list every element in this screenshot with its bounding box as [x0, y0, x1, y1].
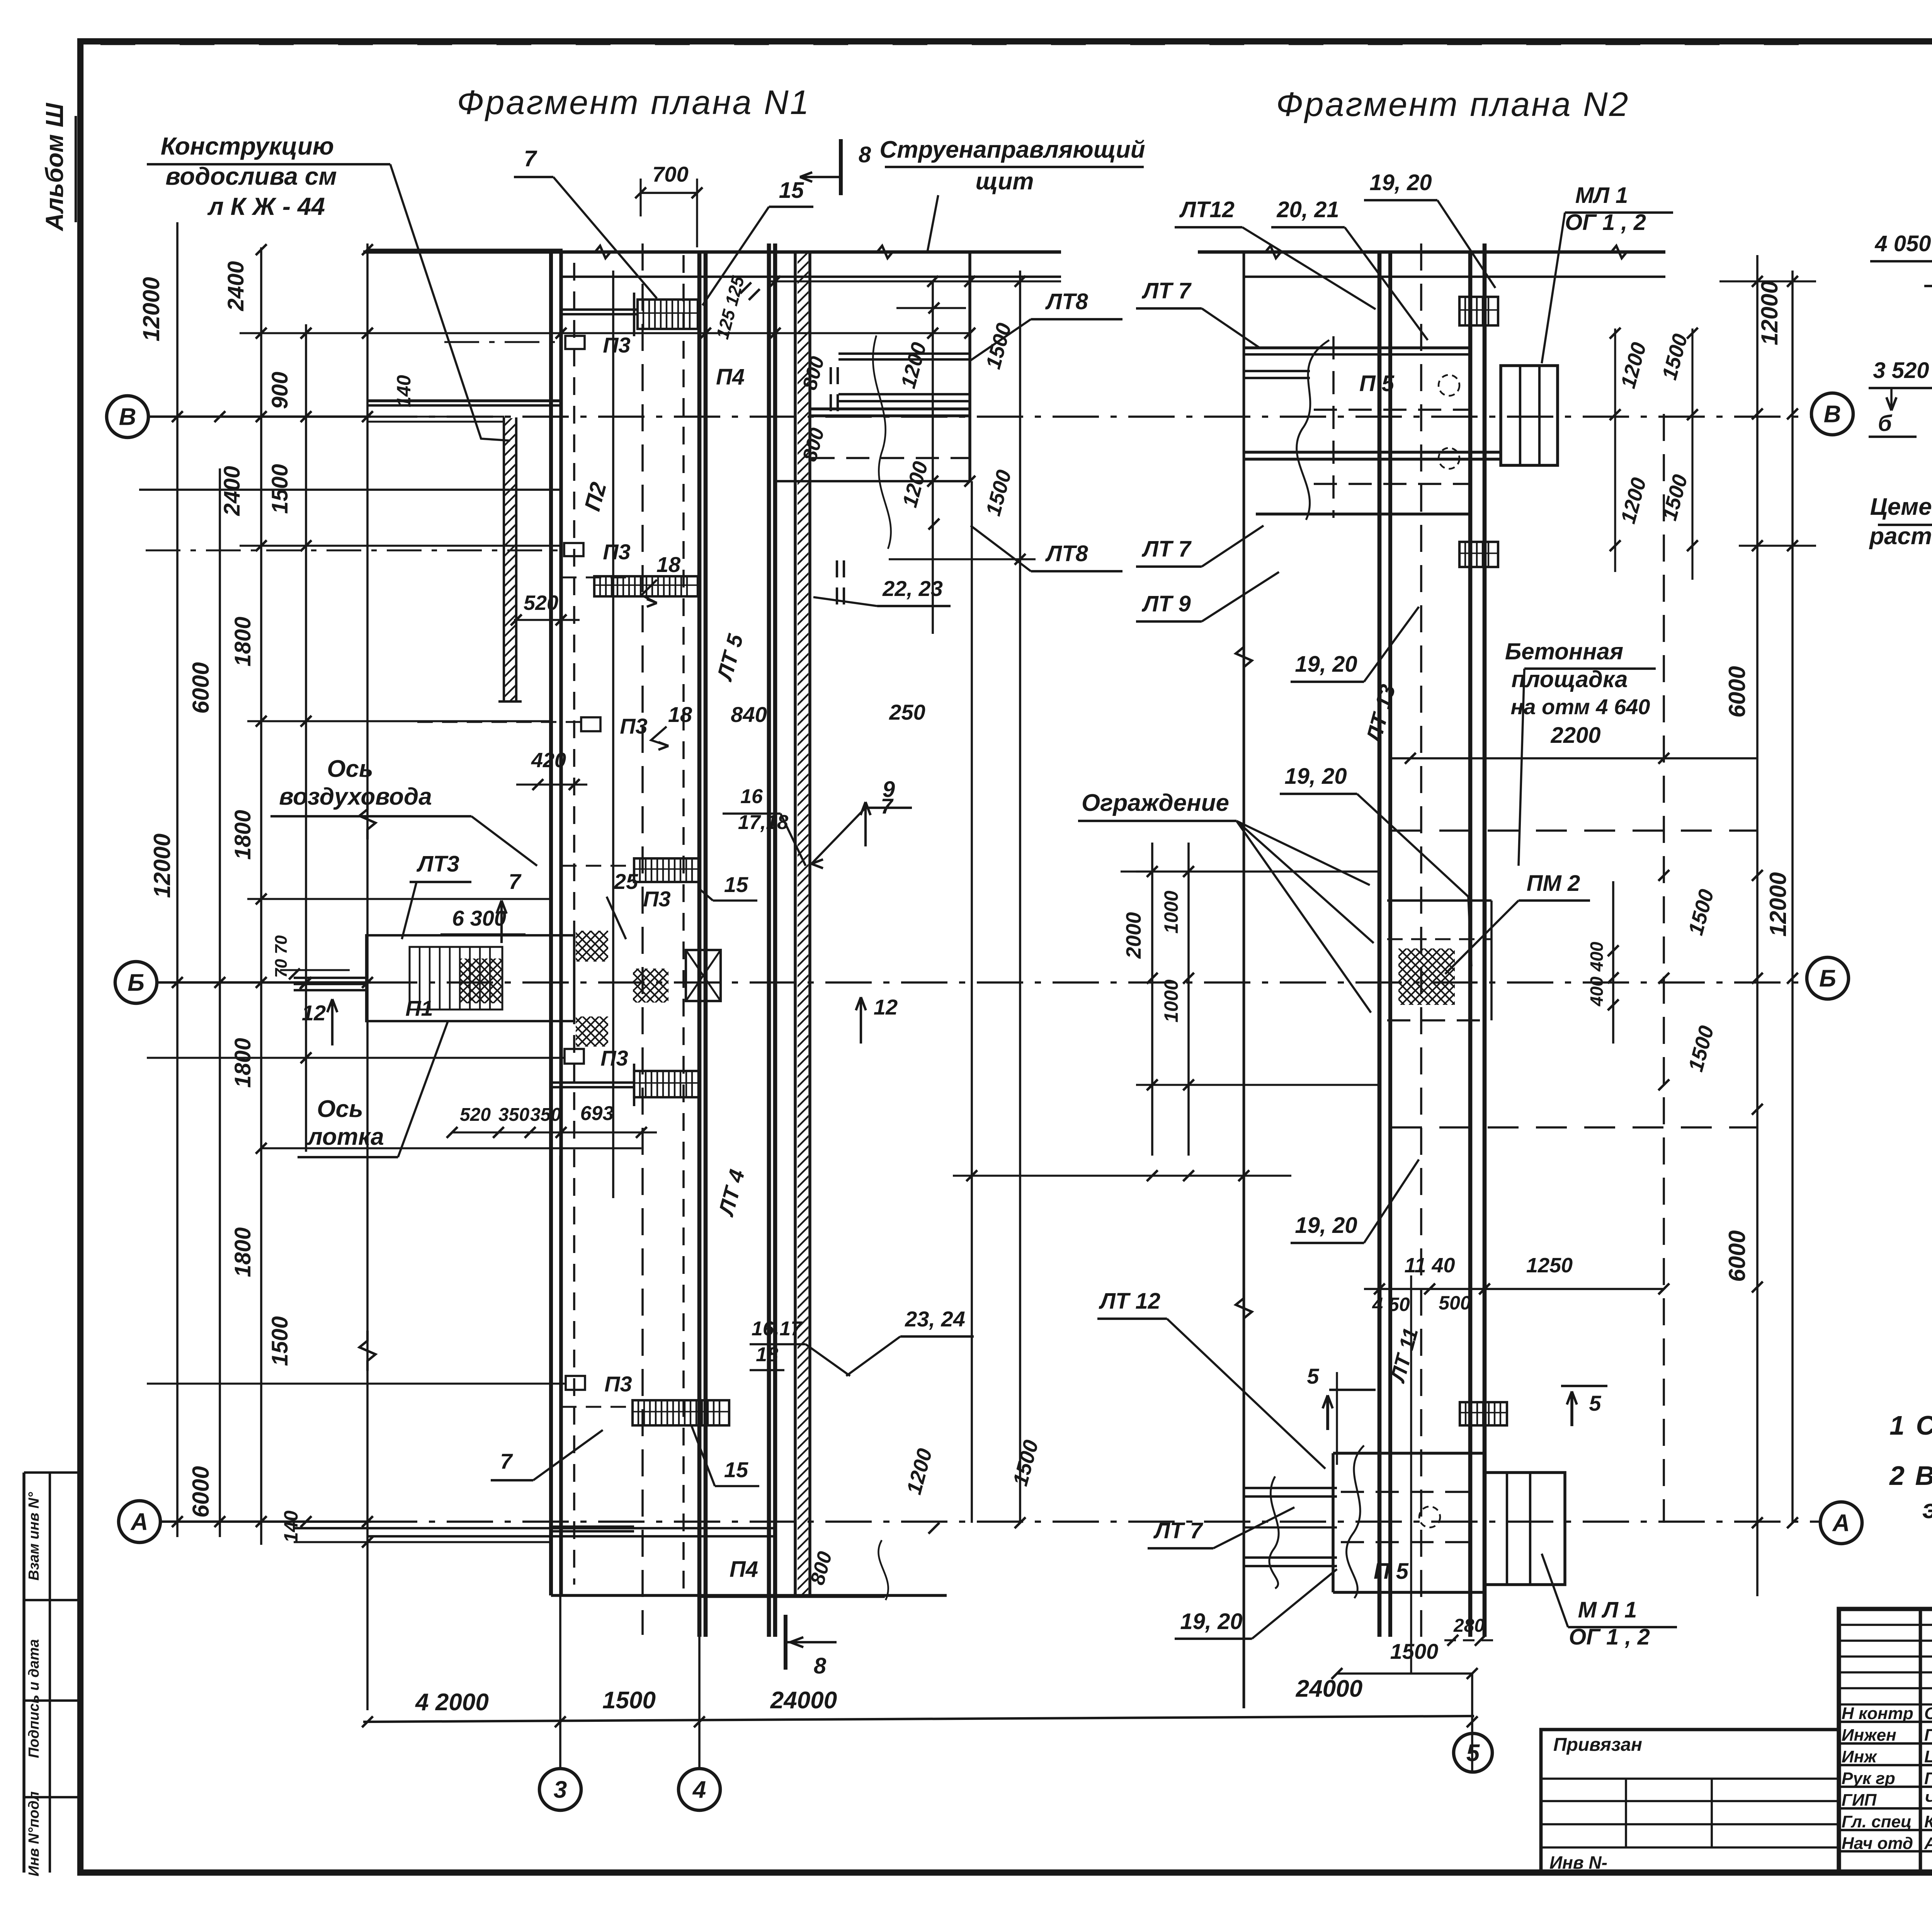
П3 leader dash-dot 4	[247, 1057, 565, 1059]
привязан rows	[1541, 1777, 1839, 1780]
svg-text:Привязан: Привязан	[1553, 1735, 1642, 1755]
svg-text:12: 12	[302, 1001, 326, 1025]
svg-text:лотка: лотка	[306, 1124, 384, 1150]
svg-text:1500: 1500	[267, 1316, 293, 1366]
Конструкцию водослива leader	[390, 164, 510, 441]
wavy break curve bottom	[1269, 1476, 1279, 1588]
title block name rows	[1839, 1721, 1932, 1723]
axis circle В (right)	[1811, 393, 1853, 435]
svg-text:2 Все сварные шбы h= 6мм: 2 Все сварные шбы h= 6мм Сварку произбод…	[1889, 1461, 1932, 1491]
svg-text:7: 7	[509, 869, 522, 894]
svg-text:24000: 24000	[770, 1687, 837, 1714]
svg-text:П4: П4	[730, 1557, 758, 1582]
svg-text:19, 20: 19, 20	[1284, 764, 1347, 789]
svg-text:19, 20: 19, 20	[1180, 1609, 1242, 1634]
svg-text:4 2000: 4 2000	[415, 1689, 489, 1716]
svg-text:1800: 1800	[230, 1038, 255, 1088]
ladder lower (П5 top block)	[1459, 542, 1498, 567]
plan1 axis dashed vertical	[641, 243, 644, 1635]
svg-text:Альбом Ш: Альбом Ш	[41, 102, 68, 232]
plan1 hatched wall band	[794, 252, 797, 1595]
axis line Б (plan 1)	[157, 981, 371, 984]
dim line y862 ticks	[301, 328, 311, 339]
axis circle А (left)	[119, 1501, 160, 1542]
svg-text:500: 500	[1439, 1292, 1471, 1314]
svg-text:1000: 1000	[1160, 979, 1182, 1022]
svg-text:Чирков: Чирков	[1924, 1791, 1932, 1810]
plan1 right dim vertical 1	[932, 281, 934, 634]
svg-text:1 Совместно с данным см л л: 1 Совместно с данным см л л К Ж -36 ,39 …	[1889, 1410, 1932, 1440]
svg-text:693: 693	[580, 1102, 614, 1125]
svg-text:раствор М -200: раствор М -200	[1869, 523, 1932, 550]
svg-text:4 050: 4 050	[1874, 231, 1931, 256]
axis line В (plan 1)	[148, 415, 371, 418]
svg-text:Фрагмент плана N1: Фрагмент плана N1	[457, 83, 811, 121]
svg-text:2000: 2000	[1122, 912, 1145, 959]
П3 square 5	[566, 1376, 585, 1390]
bottom double beam lines	[551, 1081, 634, 1084]
svg-text:6000: 6000	[188, 662, 214, 713]
dimension ticks on left chain	[172, 411, 183, 422]
vertical dim drop lines bottom block	[1336, 1372, 1338, 1465]
plan1 top boundary	[363, 250, 1061, 254]
svg-text:15: 15	[779, 178, 804, 203]
svg-text:Петропавловская: Петропавловская	[1924, 1726, 1932, 1745]
П3 leader dash-dot 2	[146, 550, 564, 552]
central block crosshatch patch	[460, 958, 502, 1003]
привязан columns	[1625, 1779, 1627, 1847]
plan1 left wall line a	[549, 252, 553, 1595]
svg-text:19, 20: 19, 20	[1369, 170, 1432, 195]
svg-text:350: 350	[498, 1105, 529, 1125]
plan1 right wall top segment	[968, 252, 971, 481]
bottom dimension line	[363, 1716, 1474, 1722]
plan1 right dim vertical 2	[971, 481, 973, 1523]
right dimension chain verticals	[1756, 255, 1759, 1596]
svg-text:П3: П3	[620, 714, 647, 738]
additional dashed horizontals in strip	[561, 577, 634, 579]
svg-text:18: 18	[656, 552, 681, 577]
svg-text:840: 840	[731, 702, 767, 727]
svg-text:700: 700	[652, 162, 688, 186]
svg-text:электродами Э-42 ГОСТ 9467 -: электродами Э-42 ГОСТ 9467 -75	[1922, 1494, 1932, 1524]
svg-text:на отм 4 640: на отм 4 640	[1511, 695, 1650, 719]
П1 corridor double lines to left	[294, 977, 366, 979]
svg-text:щит: щит	[976, 168, 1034, 195]
8 section mark bottom	[784, 1615, 787, 1670]
svg-text:Гарбуз: Гарбуз	[1924, 1769, 1932, 1788]
svg-text:250: 250	[889, 700, 925, 724]
top border scan smudge	[100, 41, 1839, 45]
plan1 right panel bottom line	[775, 480, 970, 482]
svg-text:2400: 2400	[219, 466, 245, 516]
П3 dashed leader 2b	[417, 721, 581, 723]
svg-text:1800: 1800	[230, 616, 255, 666]
svg-text:Семенова: Семенова	[1924, 1704, 1932, 1723]
svg-text:Подпись и дата: Подпись и дата	[26, 1639, 42, 1758]
svg-text:12000: 12000	[149, 834, 175, 898]
plan2 dashed right boundary	[1663, 414, 1665, 1523]
svg-text:4 50: 4 50	[1372, 1294, 1410, 1315]
svg-text:520: 520	[460, 1105, 491, 1125]
700 dimension top	[641, 192, 697, 194]
svg-text:П3: П3	[643, 887, 670, 911]
svg-text:520: 520	[524, 591, 558, 615]
plan2 beam pair left	[1378, 252, 1382, 1637]
svg-text:ЛТ 12: ЛТ 12	[1099, 1289, 1160, 1314]
plan1 second top line	[562, 276, 1061, 278]
plan1 far right dim vertical	[1019, 271, 1021, 1523]
plan2 bottom dim line (1140/1250)	[1364, 1288, 1664, 1290]
П5 dashed circles	[1439, 375, 1459, 396]
plan2 dashed axis	[1420, 243, 1422, 1637]
central block stairs	[410, 947, 502, 1010]
svg-text:6000: 6000	[1724, 666, 1750, 717]
МЛ1 attachment bottom	[1485, 1473, 1565, 1585]
140 dim bottom	[294, 1527, 775, 1529]
svg-text:Конструкцию: Конструкцию	[161, 132, 334, 160]
П3 square 1	[565, 336, 585, 349]
tick line below Б between plans	[953, 1175, 1291, 1176]
В axis double wall line (right of plan1)	[810, 407, 971, 410]
12 arrow left	[331, 999, 333, 1045]
dim verticals for 1200/1500 right of П5	[1691, 329, 1693, 580]
ladder 19,20 top	[1459, 297, 1498, 325]
axis 5 drop line	[1471, 1674, 1473, 1772]
svg-text:ЛТ12: ЛТ12	[1179, 197, 1235, 222]
svg-text:140: 140	[393, 375, 415, 407]
ladder 15 (top)	[638, 300, 698, 329]
wavy break curve through П5 block	[1297, 340, 1329, 520]
axis 3 drop line	[559, 1156, 561, 1768]
svg-text:12000: 12000	[1757, 281, 1782, 346]
svg-text:Бетонная: Бетонная	[1505, 638, 1623, 664]
svg-text:1250: 1250	[1526, 1254, 1573, 1277]
ladder (Б lower)	[634, 1071, 699, 1097]
double dash symbols in П4 area	[830, 367, 832, 384]
svg-text:Н контр: Н контр	[1842, 1704, 1913, 1723]
svg-text:22, 23: 22, 23	[882, 576, 943, 601]
right chain ticks	[1752, 409, 1763, 419]
left chain horizontal tick lines	[367, 249, 563, 250]
dim line above Б between plans	[1121, 870, 1379, 872]
break marks on plan top lines	[587, 246, 618, 258]
svg-text:ЛТ8: ЛТ8	[1045, 289, 1088, 314]
svg-text:2200: 2200	[1550, 723, 1600, 748]
svg-text:7: 7	[881, 794, 894, 818]
plan2 top boundary	[1198, 250, 1665, 254]
wavy break line through П4 area	[873, 335, 891, 549]
привязан table outline	[1541, 1730, 1839, 1873]
svg-text:15: 15	[724, 1457, 748, 1482]
svg-text:400: 400	[1587, 941, 1607, 972]
svg-text:4: 4	[692, 1777, 706, 1803]
svg-text:Цбеткова: Цбеткова	[1924, 1747, 1932, 1766]
svg-text:19, 20: 19, 20	[1295, 1213, 1357, 1238]
svg-text:б: б	[1878, 411, 1893, 436]
svg-text:5: 5	[1466, 1740, 1480, 1767]
plan1 bottom boundary	[551, 1594, 947, 1597]
бетонная площадка dashed outline right of plan2	[1391, 829, 1757, 832]
svg-text:Инжен: Инжен	[1842, 1726, 1896, 1745]
ladder (bottom)	[633, 1400, 729, 1425]
svg-text:ЛТ 7: ЛТ 7	[1141, 536, 1192, 562]
svg-text:7: 7	[500, 1449, 513, 1473]
svg-text:3 520: 3 520	[1873, 358, 1929, 383]
title block thin top rows (left part)	[1839, 1624, 1932, 1626]
plan2 left boundary long line	[1243, 252, 1245, 1708]
svg-text:Ось: Ось	[327, 756, 373, 782]
svg-text:1000: 1000	[1160, 890, 1182, 933]
plan1 top dim line	[768, 280, 1061, 282]
central machine block П1 outline	[366, 935, 574, 1021]
plan1 thin vertical	[612, 271, 614, 1198]
beam double lines in П4 right panel	[838, 352, 971, 355]
stair dimension 520 350 350	[452, 1131, 657, 1133]
svg-text:Инв N-: Инв N-	[1549, 1852, 1607, 1873]
ось line (left long thin vertical)	[366, 243, 369, 1710]
plan1 dashed vertical 2	[682, 255, 685, 1592]
svg-text:ЛТ 7: ЛТ 7	[1141, 278, 1192, 303]
svg-text:Инж: Инж	[1842, 1747, 1878, 1766]
svg-text:П3: П3	[603, 333, 630, 357]
svg-text:25: 25	[614, 869, 638, 894]
svg-text:П 5: П 5	[1374, 1559, 1409, 1584]
svg-text:А: А	[1832, 1510, 1850, 1537]
plan1 wall double line across left part	[367, 399, 561, 402]
svg-text:Ось: Ось	[317, 1096, 363, 1122]
1200/1500 dim ticks right panel	[929, 303, 939, 313]
svg-text:1800: 1800	[230, 810, 255, 860]
plan2 second top line	[1244, 276, 1665, 278]
ПМ2 crosshatch patch	[1398, 948, 1455, 1005]
ПМ2 box dashes	[1387, 899, 1492, 902]
svg-text:ЛТ 9: ЛТ 9	[1141, 591, 1191, 616]
svg-text:70 70: 70 70	[272, 935, 291, 978]
svg-text:П3: П3	[604, 1372, 632, 1396]
П3 leader dash-dot 1	[444, 341, 565, 343]
svg-text:л К Ж - 44: л К Ж - 44	[207, 192, 325, 220]
svg-text:16: 16	[740, 785, 763, 808]
svg-text:водослива см: водослива см	[165, 162, 337, 190]
svg-text:1800: 1800	[230, 1227, 255, 1277]
svg-text:12000: 12000	[138, 277, 164, 342]
svg-text:24000: 24000	[1296, 1675, 1362, 1702]
П4 bottom box	[700, 1595, 885, 1598]
plan2 beam pair right	[1468, 252, 1473, 1637]
svg-text:П3: П3	[600, 1046, 628, 1070]
svg-text:12000: 12000	[1765, 872, 1791, 937]
plan1 dashed line near left wall	[573, 263, 575, 1585]
svg-text:Нач отд: Нач отд	[1842, 1834, 1913, 1853]
svg-text:Рук гр: Рук гр	[1842, 1769, 1895, 1788]
П3 square 2	[564, 543, 583, 556]
svg-text:П3: П3	[603, 540, 630, 564]
plan2 mid dim verticals	[1151, 843, 1153, 1156]
svg-text:Взам инв N°: Взам инв N°	[26, 1492, 42, 1581]
7 arrow right of strip	[864, 802, 867, 846]
svg-text:МЛ 1: МЛ 1	[1575, 183, 1628, 208]
svg-text:Ограждение: Ограждение	[1082, 790, 1229, 816]
svg-text:140: 140	[280, 1510, 302, 1543]
axis circle Б (right)	[1807, 957, 1849, 999]
svg-text:Козловичев: Козловичев	[1924, 1812, 1932, 1831]
left margin column line	[22, 1473, 26, 1873]
svg-text:350: 350	[530, 1105, 561, 1125]
plan2 400 400 dims	[1612, 881, 1614, 1044]
svg-text:16,17: 16,17	[752, 1318, 803, 1340]
svg-text:7: 7	[524, 146, 537, 171]
П5 dashed vertical	[1332, 336, 1335, 518]
svg-text:Инв N°подл: Инв N°подл	[26, 1791, 42, 1876]
svg-text:2400: 2400	[223, 261, 248, 311]
svg-text:23, 24: 23, 24	[905, 1307, 965, 1331]
svg-text:П4: П4	[716, 364, 745, 390]
ЛТ7 beams entering П5 bottom block	[1244, 1487, 1337, 1489]
axis circle В (left)	[107, 396, 148, 438]
svg-text:Цементный: Цементный	[1870, 494, 1932, 520]
svg-text:Струенаправляющий: Струенаправляющий	[879, 136, 1145, 163]
водослив wall (thin hatched vertical)	[503, 417, 505, 701]
axis circle А (right)	[1820, 1502, 1862, 1544]
5 section arrows	[1326, 1395, 1329, 1430]
svg-text:Альтшуолер: Альтшуолер	[1924, 1834, 1932, 1853]
left dimension chain verticals	[176, 222, 179, 1537]
П3 square 2b	[581, 717, 600, 731]
svg-text:19, 20: 19, 20	[1295, 652, 1357, 677]
П3 leader dash-dot 5	[247, 1383, 566, 1385]
svg-text:280: 280	[1453, 1616, 1485, 1636]
svg-text:15: 15	[724, 872, 748, 897]
svg-text:1500: 1500	[1390, 1639, 1439, 1663]
svg-text:400: 400	[1587, 976, 1607, 1006]
title block outer frame	[1839, 1609, 1932, 1873]
X-box element	[686, 950, 721, 1001]
П3 square 4	[565, 1049, 584, 1064]
svg-text:3: 3	[554, 1777, 567, 1803]
plan1 beam line pair 1	[697, 252, 702, 1637]
svg-text:Гл. спец: Гл. спец	[1842, 1812, 1912, 1831]
12 arrow right of strip	[860, 997, 862, 1044]
svg-text:6000: 6000	[1724, 1230, 1750, 1282]
svg-text:11 40: 11 40	[1404, 1254, 1455, 1277]
svg-text:20, 21: 20, 21	[1276, 197, 1339, 222]
plan1 double beam top-left	[562, 308, 638, 311]
svg-text:8: 8	[814, 1653, 827, 1679]
svg-text:ГИП: ГИП	[1842, 1791, 1877, 1810]
small hatch patches near П1	[576, 931, 608, 962]
МЛ1 attachment box top	[1501, 366, 1558, 465]
svg-text:А: А	[130, 1509, 148, 1536]
plan1 left wall line b	[559, 252, 563, 1595]
8 section mark top	[839, 139, 843, 195]
axis 4 drop line	[698, 1597, 701, 1768]
svg-text:8: 8	[859, 142, 871, 167]
svg-text:воздуховода: воздуховода	[279, 783, 432, 810]
axis circle 3	[539, 1769, 581, 1810]
svg-text:1500: 1500	[602, 1687, 656, 1714]
svg-text:В: В	[119, 404, 136, 431]
svg-text:М Л 1: М Л 1	[1578, 1597, 1637, 1622]
svg-text:П 5: П 5	[1359, 371, 1395, 396]
svg-text:П1: П1	[405, 996, 433, 1020]
svg-text:6000: 6000	[188, 1466, 214, 1517]
П5 bottom inner dashed	[1341, 1491, 1480, 1493]
svg-text:18: 18	[668, 702, 692, 727]
svg-text:Фрагмент плана N2: Фрагмент плана N2	[1276, 85, 1630, 123]
svg-text:18: 18	[756, 1343, 778, 1366]
ladder (second)	[594, 576, 698, 596]
svg-text:900: 900	[267, 372, 293, 409]
plan1 horiz line below В	[139, 489, 563, 491]
ЛТ7 beams entering П5 top block (horizontal lines)	[1244, 346, 1471, 349]
svg-text:Б: Б	[128, 970, 145, 996]
thin double lines left of водослив wall	[368, 416, 504, 418]
axis line А (plan 1)	[160, 1520, 371, 1523]
П5 bottom block outline	[1333, 1452, 1485, 1455]
ladder (Б upper)	[634, 858, 699, 882]
svg-text:420: 420	[531, 749, 566, 772]
520 dimension near водослив	[514, 619, 580, 621]
axis circle Б (left)	[115, 962, 157, 1003]
axis circle 4	[679, 1769, 720, 1810]
svg-text:ПМ 2: ПМ 2	[1527, 871, 1580, 896]
svg-text:Б: Б	[1819, 965, 1836, 992]
svg-text:ЛТ 7: ЛТ 7	[1153, 1518, 1203, 1543]
svg-text:В: В	[1824, 401, 1841, 428]
title block left columns	[1919, 1609, 1922, 1873]
plan1 beam line pair 2	[767, 243, 771, 1637]
axis circle 5 (bottom)	[1454, 1733, 1492, 1772]
svg-text:площадка: площадка	[1512, 666, 1628, 692]
svg-text:12: 12	[874, 995, 898, 1019]
svg-text:5: 5	[1589, 1391, 1601, 1415]
svg-text:5: 5	[1307, 1364, 1319, 1388]
svg-text:ЛТ8: ЛТ8	[1045, 541, 1088, 566]
svg-text:ЛТ3: ЛТ3	[416, 851, 459, 877]
ladder bottom plan2	[1460, 1402, 1507, 1425]
